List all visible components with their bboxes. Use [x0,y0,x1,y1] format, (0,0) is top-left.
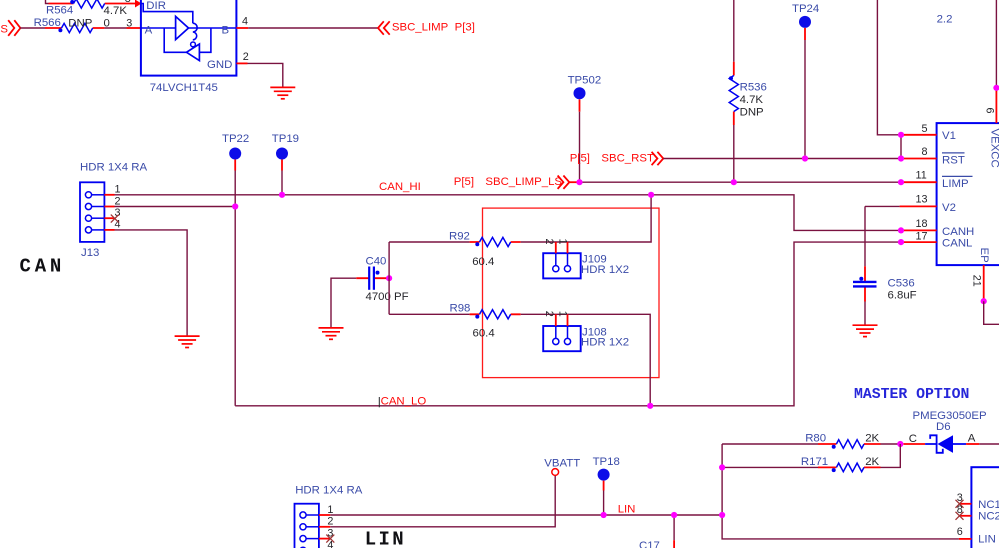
svg-text:3: 3 [126,18,132,30]
svg-text:2K: 2K [865,433,879,445]
svg-text:0: 0 [104,18,110,30]
wire R80 left riser [722,444,959,539]
connector J109 body [543,253,581,278]
junction CAN_LO [647,403,653,409]
svg-text:1: 1 [115,184,121,196]
J13 pin stubs [104,195,114,230]
svg-text:2: 2 [543,311,555,317]
svg-text:8: 8 [922,146,928,158]
ground [853,325,878,336]
resistor R80 zigzag [836,440,864,449]
svg-text:HDR 1X2: HDR 1X2 [581,337,629,349]
pin stubs [319,515,330,539]
junction R171 left [719,464,725,470]
svg-text:HDR 1X4 RA: HDR 1X4 RA [295,485,363,497]
junction [279,192,285,198]
diode D6 lead left [904,443,926,445]
part dot C536 [859,277,863,281]
J108 pin stubs [556,314,568,326]
svg-text:C17: C17 [639,540,660,548]
no-connect X pin3 [326,535,334,543]
svg-text:74LVCH1T45: 74LVCH1T45 [150,82,218,94]
wire V1-RST link [900,135,902,159]
wire [104,27,126,29]
svg-text:2: 2 [115,195,121,207]
svg-text:6: 6 [957,526,963,538]
svg-text:CAN: CAN [20,256,66,278]
svg-text:NC2: NC2 [978,511,999,523]
wire R171 right riser [881,444,901,467]
svg-text:VBATT: VBATT [544,458,580,470]
svg-text:2: 2 [543,239,555,245]
svg-text:NC1: NC1 [978,499,999,511]
wire B to SBC_LIMP [248,27,378,29]
resistor R92 zigzag [480,237,511,246]
svg-text:HDR 1X2: HDR 1X2 [581,264,629,276]
svg-text:R171: R171 [801,456,828,468]
cathode bar with schottky hooks [930,435,943,453]
svg-text:A: A [968,433,976,445]
svg-text:4700 PF: 4700 PF [366,291,409,303]
pin 5 V1 [901,134,937,136]
buffer triangle lower [187,44,200,61]
part dot R536 [729,76,733,80]
wire SBC_RST to pin 8 [663,158,901,160]
IC U3 body [971,467,999,548]
ground [175,336,200,347]
J13 internal pin links [92,195,105,230]
junction [601,512,607,518]
svg-text:2: 2 [243,51,249,63]
wire EP down [984,301,999,324]
svg-text:1: 1 [327,504,333,516]
svg-text:B: B [222,24,230,36]
DIR arrow [135,0,142,8]
svg-text:4: 4 [242,16,248,28]
resistor R536 top wire [733,0,735,62]
J109 internal links [556,253,568,265]
junction [731,179,737,185]
wire pin2 to ground [248,63,283,87]
svg-text:R80: R80 [805,433,826,445]
resistor R1 leads R564 [49,3,136,5]
resistor R536 leads [733,62,735,125]
part dot R564 [70,0,74,4]
anode triangle [938,435,954,453]
svg-text:CAN_LO: CAN_LO [381,396,427,408]
chevron out << [378,21,390,34]
junction LIN riser [719,512,725,518]
svg-text:DNP: DNP [68,18,92,30]
svg-text:V2: V2 [942,202,956,214]
svg-text:LIN: LIN [618,503,636,515]
svg-text:SBC_LIMP_LS: SBC_LIMP_LS [485,176,562,188]
svg-text:D6: D6 [936,421,951,433]
svg-text:2: 2 [327,516,333,528]
connector J? body [295,504,319,548]
pin 18 CANH [901,229,937,231]
caret mark [378,397,380,407]
svg-text:LS: LS [0,24,8,36]
capacitor C536 plates [853,282,877,287]
J108 circles [553,338,571,344]
junction TP502 [576,179,582,185]
chevron in >> [8,20,20,36]
chevron in >> [558,176,570,189]
svg-text:P[5]: P[5] [570,152,590,164]
ground [270,87,295,98]
svg-text:13: 13 [916,194,928,206]
wire CAN_LO [235,242,901,406]
svg-text:LIMP: LIMP [942,178,969,190]
svg-text:6.8uF: 6.8uF [888,289,917,301]
svg-text:60.4: 60.4 [473,327,495,339]
svg-text:EP: EP [978,248,990,263]
J108 internal links [556,326,568,338]
svg-text:2.2: 2.2 [937,14,953,26]
resistor R171 leads [818,466,881,468]
A-B internal line [141,27,237,29]
wire node to R98 [389,313,470,315]
svg-text:DIR: DIR [146,0,166,12]
diode lead right [966,443,979,445]
resistor R92 leads [470,241,521,243]
wire C40 left to ground [331,278,356,328]
lead [569,181,579,183]
J109 circles [553,266,571,272]
svg-text:TP18: TP18 [593,456,620,468]
pin 17 CANL [901,241,937,243]
resistor R171 wire left [722,466,818,468]
capacitor C40 leads [356,277,389,279]
svg-text:6: 6 [984,108,996,114]
svg-text:2K: 2K [865,456,879,468]
resistor R80 leads [818,443,881,445]
pin 2 stub GND [236,62,247,64]
svg-text:V1: V1 [942,130,956,142]
svg-text:CAN_HI: CAN_HI [379,181,421,193]
junction node [386,275,392,281]
svg-text:1: 1 [557,239,569,245]
svg-text:C40: C40 [366,255,387,267]
junction C node [897,441,903,447]
resistor R566 leads [45,27,104,29]
op-amp U1 74LVCH1T45 body [141,0,237,76]
connector J13 body [80,182,104,242]
buffer triangle upper [176,16,189,39]
svg-text:TP19: TP19 [272,133,299,145]
svg-text:4.7K: 4.7K [740,94,764,106]
svg-text:4.7K: 4.7K [104,5,128,17]
junction CAN_HI [648,192,654,198]
svg-text:17: 17 [916,230,928,242]
part dot R80 [832,445,836,449]
wire pin 2 to VBATT [330,475,555,526]
connector J108 body [543,326,581,351]
wire CAN_HI [115,195,902,231]
svg-text:TP502: TP502 [568,75,602,87]
no-connect X [956,512,964,520]
part dot R98 [475,315,479,319]
wire LIN line [330,514,722,516]
wire into R564 from top [46,0,49,4]
svg-text:DNP: DNP [740,107,764,119]
resistor R171 zigzag [836,463,864,472]
part dot R92 [475,242,479,246]
svg-text:21: 21 [971,275,983,287]
svg-text:HDR 1X4 RA: HDR 1X4 RA [80,162,148,174]
svg-text:C536: C536 [888,277,915,289]
wire node to R92 [389,241,470,243]
svg-text:J13: J13 [81,247,99,259]
pin 8 NC2 [960,515,972,517]
svg-text:R92: R92 [449,230,470,242]
svg-text:18: 18 [916,218,928,230]
internal pin links [306,515,319,539]
svg-text:LIN: LIN [978,534,996,546]
svg-text:8: 8 [125,0,131,5]
svg-text:11: 11 [916,170,927,182]
no-connect X [956,500,964,508]
svg-text:LIN: LIN [365,528,406,548]
pin 3 NC1 [960,503,972,505]
connector pin circles [300,512,306,548]
wire [20,27,45,29]
pin 13 V2 [900,205,937,207]
resistor R536 zigzag [729,76,738,112]
wire R536 to LIMP line [733,125,735,182]
capacitor C40 plates [369,267,374,290]
junction [232,203,238,209]
DIR internal trace [141,4,193,24]
svg-text:R566: R566 [34,17,61,29]
svg-text:60.4: 60.4 [472,256,494,268]
part dot R566 [58,28,62,32]
wire J13 pin4 to ground [115,230,188,336]
diode D6 [925,443,966,445]
resistor R564 zigzag [74,0,105,8]
chevron in >> [652,152,664,165]
svg-text:GND: GND [207,59,232,71]
group outline (red box) [483,208,660,378]
wire R80 right [881,443,901,445]
DIR enable arcs [193,23,197,40]
pin 4 stub B [236,27,248,29]
pin 6 VEXCC trunk [995,0,997,88]
pin A stub [127,27,141,29]
pin 6 LIN [959,538,972,540]
svg-text:A: A [145,24,153,36]
wire R98 to CAN_LO riser [521,314,651,406]
wire C536 to ground [864,302,866,326]
pin 21 EP stub [983,265,985,301]
J109 pin stubs [556,242,568,253]
svg-text:MASTER OPTION: MASTER OPTION [854,387,969,403]
svg-text:R98: R98 [450,303,471,315]
ground [319,328,344,339]
capacitor C536 leads [864,266,866,301]
wire vertical to CAN_LO [234,207,236,406]
svg-text:CANH: CANH [942,226,974,238]
wire node vertical [388,242,390,314]
svg-text:P[5]: P[5] [454,176,474,188]
svg-text:R536: R536 [740,82,767,94]
wire R92 to CAN_HI riser [521,195,651,242]
no-connect X pin3 [111,215,119,223]
power symbol VBATT [552,469,559,476]
wire V2 to C536 [865,206,900,266]
svg-text:1: 1 [557,311,569,317]
part dot C40 [376,271,380,275]
IC U2 body [937,123,999,265]
capacitor C17 wire [673,515,675,540]
wire J13 pin2 [115,206,236,208]
svg-text:R564: R564 [46,4,73,16]
resistor R80 wire left [722,443,818,445]
part dot R171 [832,468,836,472]
svg-text:TP22: TP22 [222,133,249,145]
wire SBC_LIMP_LS to pin 11 [580,181,902,183]
svg-text:P[3]: P[3] [455,22,475,34]
resistor R566 zigzag [62,23,93,32]
svg-text:VEXCC: VEXCC [989,129,999,168]
resistor R98 zigzag [480,310,511,319]
svg-text:RST: RST [942,154,965,166]
junction [802,155,808,161]
wire V1 trunk [877,0,901,135]
lower loop [164,28,211,52]
svg-text:5: 5 [922,123,928,135]
J13 pin circles [85,192,91,233]
resistor R98 leads [470,313,521,315]
svg-text:SBC_LIMP: SBC_LIMP [392,22,448,34]
svg-text:CANL: CANL [942,238,972,250]
svg-text:SBC_RST: SBC_RST [601,152,654,164]
bubble [191,42,196,47]
svg-text:TP24: TP24 [792,3,819,15]
pin 8 RST [901,158,937,160]
wire to edge [979,443,999,445]
pin 11 LIMP [901,181,937,183]
